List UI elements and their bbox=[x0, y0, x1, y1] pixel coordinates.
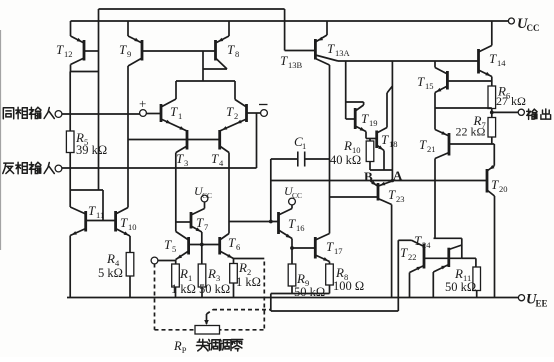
svg-text:1: 1 bbox=[178, 111, 182, 121]
svg-text:2: 2 bbox=[234, 111, 238, 121]
svg-text:T: T bbox=[170, 104, 178, 119]
svg-text:B: B bbox=[364, 169, 373, 184]
svg-text:T: T bbox=[119, 42, 127, 57]
svg-text:T: T bbox=[211, 151, 219, 166]
svg-text:7: 7 bbox=[204, 222, 208, 232]
svg-text:6: 6 bbox=[236, 242, 240, 252]
svg-text:4: 4 bbox=[219, 158, 224, 168]
svg-text:5 kΩ: 5 kΩ bbox=[98, 266, 123, 280]
svg-text:15: 15 bbox=[425, 81, 434, 91]
svg-text:24: 24 bbox=[422, 240, 431, 250]
svg-text:T: T bbox=[414, 233, 422, 248]
svg-text:CC: CC bbox=[202, 191, 212, 200]
svg-text:19: 19 bbox=[369, 118, 378, 128]
svg-text:A: A bbox=[393, 168, 403, 183]
svg-text:T: T bbox=[388, 187, 396, 202]
svg-text:R: R bbox=[207, 266, 216, 281]
svg-text:40 kΩ: 40 kΩ bbox=[330, 153, 361, 167]
svg-text:1 kΩ: 1 kΩ bbox=[171, 282, 196, 296]
svg-text:50 kΩ: 50 kΩ bbox=[294, 285, 325, 299]
svg-text:23: 23 bbox=[396, 194, 405, 204]
svg-text:CC: CC bbox=[527, 23, 540, 33]
svg-text:13B: 13B bbox=[288, 60, 303, 70]
svg-text:+: + bbox=[139, 96, 146, 111]
svg-text:T: T bbox=[176, 151, 184, 166]
svg-text:T: T bbox=[196, 215, 204, 230]
svg-text:T: T bbox=[227, 42, 235, 57]
svg-text:1: 1 bbox=[302, 141, 306, 151]
svg-text:R: R bbox=[335, 265, 344, 280]
svg-text:17: 17 bbox=[334, 246, 343, 256]
svg-text:T: T bbox=[228, 235, 236, 250]
svg-text:T: T bbox=[327, 41, 335, 56]
svg-text:EE: EE bbox=[536, 299, 548, 309]
svg-text:13A: 13A bbox=[335, 48, 351, 58]
svg-text:27 kΩ: 27 kΩ bbox=[496, 94, 526, 108]
svg-text:T: T bbox=[326, 239, 334, 254]
svg-text:5: 5 bbox=[172, 244, 176, 254]
svg-text:39 kΩ: 39 kΩ bbox=[76, 143, 107, 157]
svg-text:11: 11 bbox=[96, 210, 104, 220]
svg-text:16: 16 bbox=[296, 223, 305, 233]
svg-text:R: R bbox=[238, 260, 247, 275]
svg-text:R: R bbox=[296, 271, 305, 286]
svg-text:50 kΩ: 50 kΩ bbox=[445, 280, 476, 294]
svg-text:50 kΩ: 50 kΩ bbox=[199, 282, 230, 296]
svg-text:1 kΩ: 1 kΩ bbox=[236, 275, 261, 289]
svg-text:22: 22 bbox=[408, 252, 417, 262]
svg-text:14: 14 bbox=[497, 58, 506, 68]
svg-text:10: 10 bbox=[128, 222, 137, 232]
svg-text:T: T bbox=[361, 111, 369, 126]
svg-text:100 Ω: 100 Ω bbox=[333, 279, 364, 293]
svg-text:R: R bbox=[173, 339, 182, 353]
svg-text:T: T bbox=[120, 215, 128, 230]
svg-text:CC: CC bbox=[292, 191, 302, 200]
svg-text:21: 21 bbox=[427, 144, 436, 154]
svg-text:9: 9 bbox=[127, 49, 131, 59]
svg-text:T: T bbox=[164, 237, 172, 252]
svg-text:R: R bbox=[454, 266, 463, 281]
svg-text:T: T bbox=[417, 74, 425, 89]
svg-text:T: T bbox=[400, 245, 408, 260]
svg-text:3: 3 bbox=[184, 158, 188, 168]
svg-text:T: T bbox=[226, 104, 234, 119]
svg-text:T: T bbox=[489, 51, 497, 66]
svg-text:T: T bbox=[419, 137, 427, 152]
svg-text:T: T bbox=[56, 42, 64, 57]
svg-text:T: T bbox=[280, 53, 288, 68]
svg-text:R: R bbox=[343, 138, 352, 153]
svg-text:18: 18 bbox=[389, 139, 398, 149]
svg-text:22 kΩ: 22 kΩ bbox=[456, 125, 486, 139]
svg-text:12: 12 bbox=[64, 49, 73, 59]
svg-text:R: R bbox=[106, 251, 115, 266]
svg-text:T: T bbox=[491, 177, 499, 192]
svg-text:8: 8 bbox=[235, 49, 239, 59]
svg-text:T: T bbox=[88, 203, 96, 218]
svg-text:T: T bbox=[381, 132, 389, 147]
svg-text:R: R bbox=[179, 266, 188, 281]
svg-text:T: T bbox=[288, 216, 296, 231]
svg-text:20: 20 bbox=[499, 184, 508, 194]
svg-text:P: P bbox=[182, 345, 187, 355]
